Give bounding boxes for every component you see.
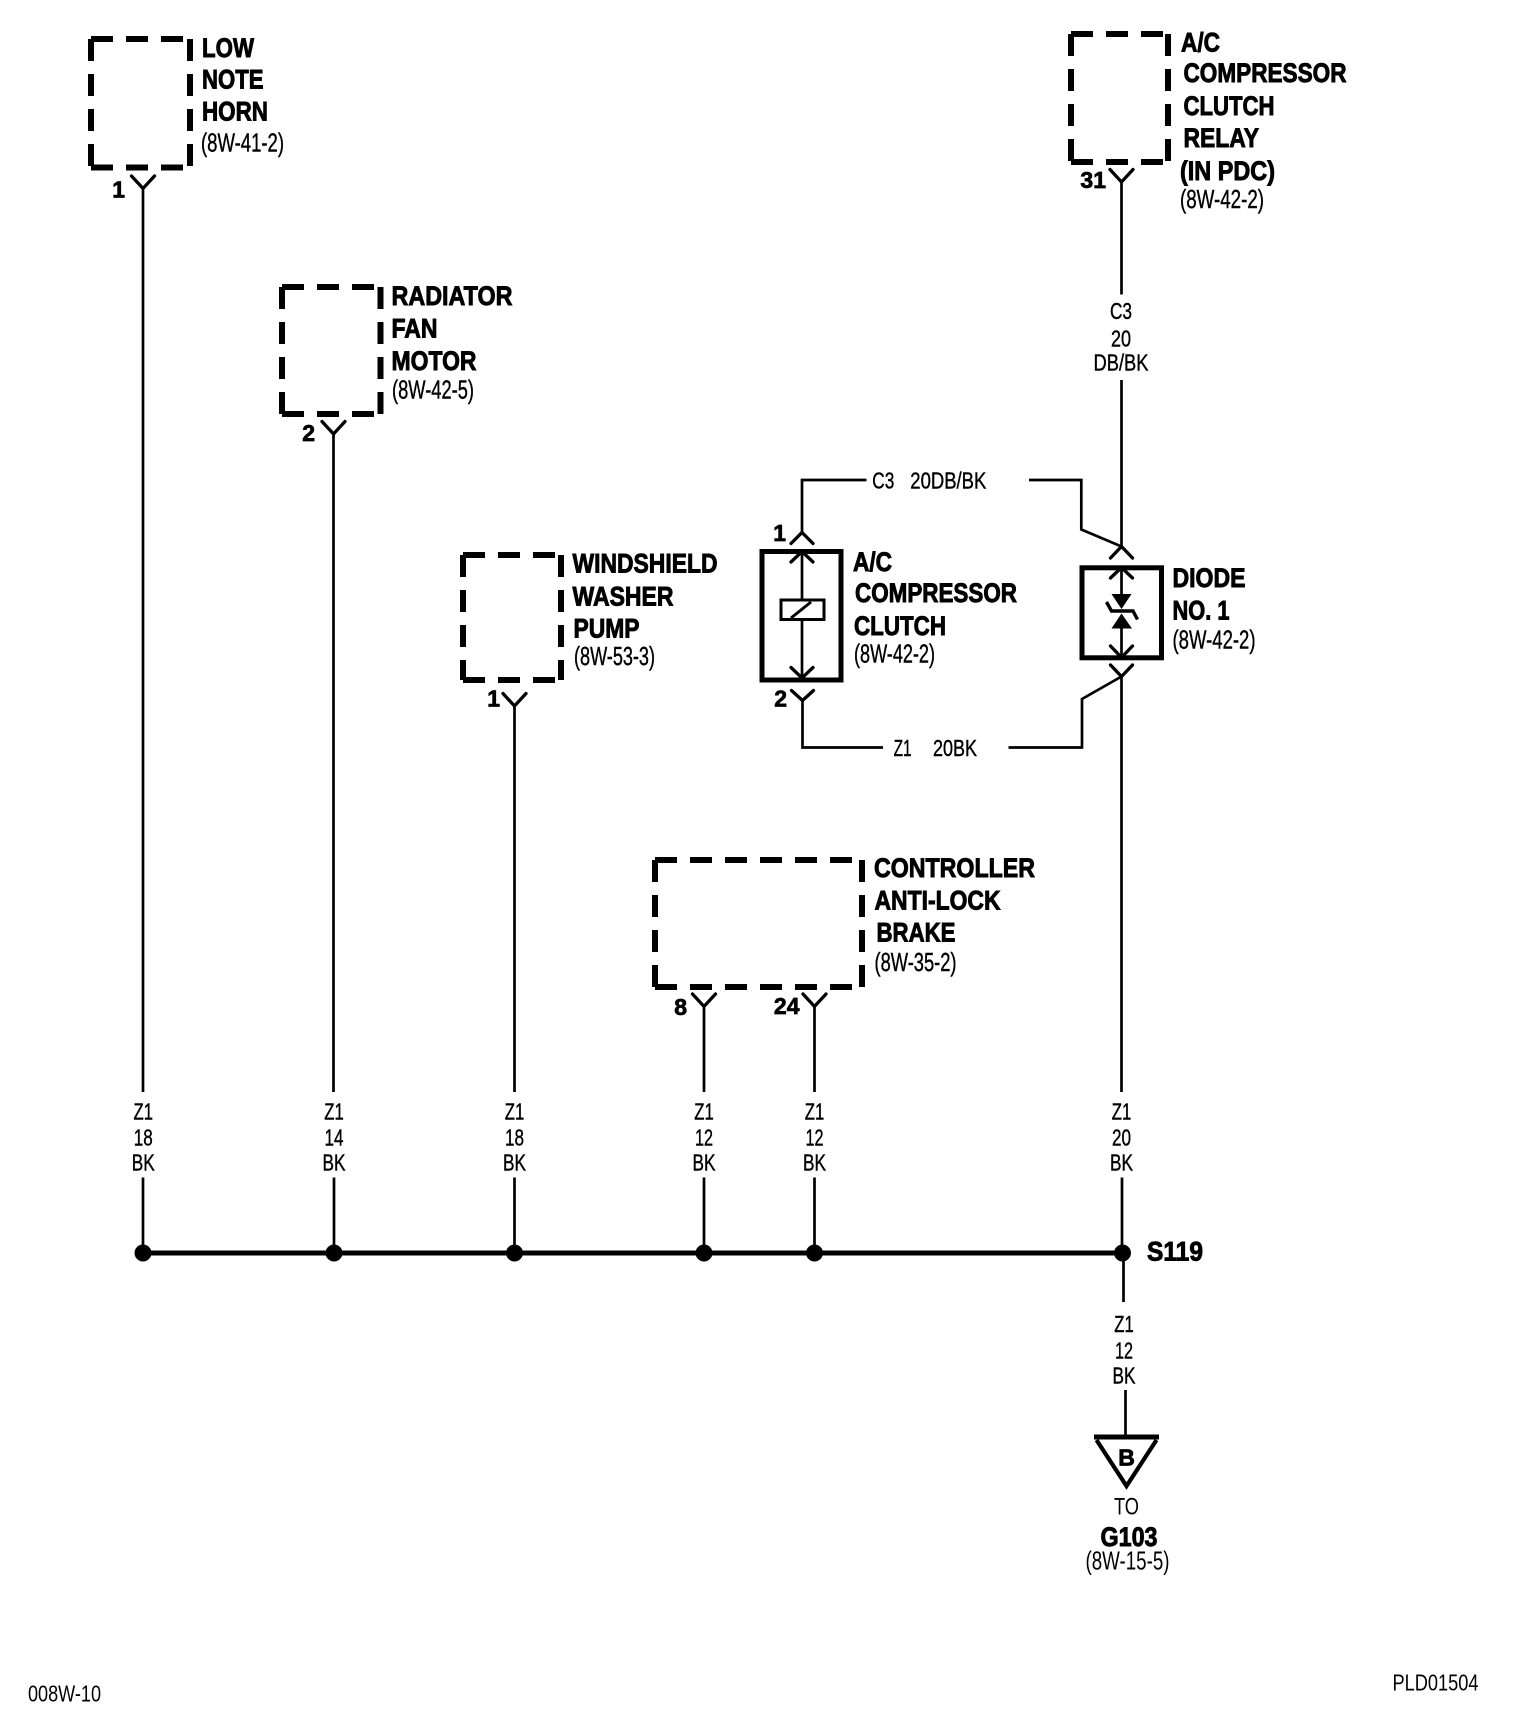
pin 1 (horn) connector [132,176,155,189]
svg-text:S119: S119 [1147,1237,1203,1267]
svg-text:COMPRESSOR: COMPRESSOR [1184,58,1347,88]
svg-text:PUMP: PUMP [574,614,640,644]
svg-text:HORN: HORN [202,97,268,127]
windshield washer pump box [463,555,561,680]
svg-text:COMPRESSOR: COMPRESSOR [855,578,1017,608]
clutch coil lead top [801,552,804,601]
wire clutch pin 2 drop [803,701,884,748]
pin 1 (clutch) connector inside [791,552,813,563]
wire fan Z1 14 BK upper [332,434,335,1092]
svg-text:BK: BK [803,1150,826,1176]
diode bottom connector outside [1111,665,1133,677]
ground destination label [1086,1494,1170,1576]
wire relay to diode segment [1120,380,1123,547]
clutch coil [781,600,824,620]
junction dot (washer) [506,1245,523,1262]
diode no. 1 label [1173,563,1256,655]
wire label Z1 20BK (horizontal) [894,735,978,761]
pin 2 (fan) connector [322,422,345,435]
low note horn label [201,33,284,158]
wire below S119 upper [1122,1253,1125,1302]
wire label Z1 18 BK (washer) [503,1099,526,1176]
junction dot (CAB 8) [696,1245,713,1262]
svg-text:DB/BK: DB/BK [1094,350,1150,376]
wire label Z1 18 BK (horn) [132,1099,155,1176]
svg-text:14: 14 [325,1125,344,1151]
svg-text:(8W-41-2): (8W-41-2) [201,128,284,158]
diode internal lead bottom [1120,629,1123,658]
wire label Z1 14 BK (fan) [323,1099,346,1176]
svg-text:RADIATOR: RADIATOR [392,281,513,311]
svg-text:(8W-42-5): (8W-42-5) [392,375,474,405]
wire label C3 20DB/BK (horizontal) [872,468,987,494]
svg-text:Z1: Z1 [1112,1099,1132,1125]
clutch coil lead bottom [801,620,804,679]
svg-text:FAN: FAN [392,314,438,344]
svg-text:Z1: Z1 [894,735,912,761]
wire fan lower [333,1178,336,1254]
svg-text:(8W-15-5): (8W-15-5) [1086,1546,1170,1576]
wire diode Z1 20 BK upper [1120,677,1123,1093]
svg-text:(8W-42-2): (8W-42-2) [854,639,935,669]
svg-text:C3: C3 [1110,298,1132,324]
svg-text:CONTROLLER: CONTROLLER [874,853,1035,883]
svg-text:12: 12 [806,1125,824,1151]
ground bus wire [143,1251,1123,1256]
pin 24 (CAB) connector [803,994,826,1007]
pin 2 (clutch) connector inside [791,668,813,679]
diode element [1107,594,1138,629]
A/C compressor clutch relay label [1180,28,1347,215]
svg-text:31: 31 [1080,167,1106,193]
svg-text:(IN PDC): (IN PDC) [1180,156,1275,186]
svg-text:NOTE: NOTE [202,65,264,95]
svg-text:DIODE: DIODE [1173,563,1246,593]
svg-text:Z1: Z1 [505,1099,525,1125]
svg-text:BRAKE: BRAKE [877,918,956,948]
radiator fan motor box [282,287,381,414]
wire C3 label to diode [1029,480,1122,547]
wire clutch pin 1 riser [802,480,867,533]
junction dot (horn) [135,1245,152,1262]
diode no. 1 box [1082,568,1162,658]
svg-text:TO: TO [1114,1494,1139,1521]
svg-text:CLUTCH: CLUTCH [854,611,946,641]
svg-text:20DB/BK: 20DB/BK [910,468,987,494]
svg-text:20BK: 20BK [933,735,978,761]
svg-text:18: 18 [134,1125,153,1151]
svg-text:12: 12 [1115,1338,1133,1364]
A/C compressor clutch label [853,547,1017,669]
A/C compressor clutch relay box [1071,34,1168,162]
svg-text:BK: BK [132,1150,155,1176]
svg-text:BK: BK [1110,1150,1133,1176]
pin 1 (clutch) connector outside [791,533,813,544]
junction dot (CAB 24) [806,1245,823,1262]
svg-text:WINDSHIELD: WINDSHIELD [573,549,718,579]
wire relay pin 31 upper segment [1120,182,1123,295]
svg-text:(8W-35-2): (8W-35-2) [875,947,957,977]
wire label C3 20 DB/BK [1094,298,1150,376]
svg-text:CLUTCH: CLUTCH [1184,91,1275,121]
svg-text:2: 2 [774,686,787,712]
windshield washer pump label [573,549,718,672]
controller anti-lock brake box [655,860,862,987]
svg-text:Z1: Z1 [324,1099,344,1125]
pin 8 (CAB) connector [693,994,716,1007]
svg-text:20: 20 [1112,1125,1131,1151]
wire horn Z1 18 BK upper [142,189,145,1093]
svg-text:1: 1 [112,177,125,203]
svg-text:MOTOR: MOTOR [392,346,477,376]
svg-text:A/C: A/C [853,547,892,577]
wire label Z1 12 BK (to ground) [1113,1311,1136,1389]
svg-text:(8W-42-2): (8W-42-2) [1180,184,1264,214]
pin 31 (relay) connector [1110,170,1133,183]
A/C compressor clutch box [762,552,841,681]
svg-text:Z1: Z1 [694,1099,714,1125]
svg-text:1: 1 [487,686,500,712]
svg-text:ANTI-LOCK: ANTI-LOCK [875,886,1001,916]
svg-text:C3: C3 [872,468,894,494]
wire Z1 label to diode [1009,677,1122,748]
wire CAB pin 24 Z1 12 BK upper [813,1007,816,1093]
diode internal lead top [1120,568,1123,595]
wire label Z1 12 BK (CAB 24) [803,1099,826,1176]
wire below S119 lower [1124,1390,1127,1437]
wire washer lower [513,1178,516,1254]
splice S119 dot [1114,1245,1131,1262]
wire label Z1 12 BK (CAB 8) [693,1099,716,1176]
wire washer Z1 18 BK upper [513,706,516,1092]
svg-text:BK: BK [323,1150,346,1176]
svg-text:WASHER: WASHER [573,582,674,612]
diode bottom connector inside [1111,646,1133,658]
wire CAB pin 8 Z1 12 BK upper [703,1007,706,1093]
svg-text:A/C: A/C [1181,28,1220,58]
svg-text:Z1: Z1 [805,1099,825,1125]
controller anti-lock brake label [874,853,1035,977]
low note horn box [91,39,190,168]
svg-text:1: 1 [773,520,786,546]
wire CAB pin 8 lower [703,1178,706,1254]
svg-text:(8W-53-3): (8W-53-3) [574,641,655,671]
svg-text:NO. 1: NO. 1 [1173,596,1230,626]
svg-text:LOW: LOW [202,33,254,63]
svg-text:BK: BK [693,1150,716,1176]
svg-text:(8W-42-2): (8W-42-2) [1173,625,1256,655]
svg-text:BK: BK [503,1150,526,1176]
svg-text:B: B [1118,1445,1135,1471]
wire CAB pin 24 lower [813,1178,816,1254]
pin 2 (clutch) connector outside [792,691,814,701]
radiator fan motor label [392,281,513,405]
svg-text:20: 20 [1111,326,1131,352]
wire diode lower [1121,1178,1124,1254]
svg-text:PLD01504: PLD01504 [1393,1670,1479,1696]
svg-text:24: 24 [774,993,800,1019]
svg-text:RELAY: RELAY [1184,123,1260,153]
diode top connector inside [1111,568,1133,579]
svg-text:18: 18 [505,1125,524,1151]
diode top connector outside [1111,547,1133,559]
svg-text:Z1: Z1 [1114,1311,1134,1337]
pin 1 (washer) connector [503,694,526,707]
wire horn lower [142,1178,145,1254]
svg-text:12: 12 [695,1125,713,1151]
svg-text:008W-10: 008W-10 [28,1681,101,1707]
svg-text:2: 2 [302,420,315,446]
ground symbol B [1094,1437,1159,1486]
svg-text:Z1: Z1 [134,1099,154,1125]
wire label Z1 20 BK (diode) [1110,1099,1133,1176]
junction dot (fan) [326,1245,343,1262]
svg-text:BK: BK [1113,1363,1136,1389]
svg-text:8: 8 [674,994,687,1020]
